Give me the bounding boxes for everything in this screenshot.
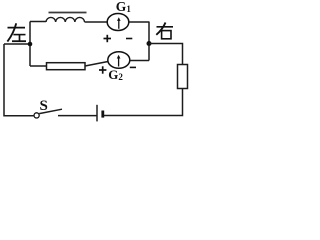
- wire right vertical (between branches): [148, 22, 150, 61]
- label G1 minus: [126, 38, 132, 40]
- wire R2 to bottom right corner: [104, 89, 183, 116]
- node right junction: [147, 41, 152, 46]
- battery long plate (positive): [96, 105, 98, 122]
- wire battery to switch: [58, 115, 97, 117]
- galvanometer G1 needle arrow: [117, 17, 121, 29]
- galvanometer G1 circle: [107, 14, 129, 31]
- wire switch to bottom left corner: [4, 44, 34, 116]
- wire coil to G1: [85, 21, 108, 23]
- resistor R2 (right, vertical): [178, 65, 188, 89]
- wire left riser to R1: [30, 65, 47, 67]
- label G2 plus: [99, 66, 106, 73]
- wire left junction to outer left: [4, 43, 30, 45]
- wire right junction to R2 corner: [149, 44, 183, 65]
- switch S blade: [39, 109, 62, 113]
- label left (zuo): [7, 23, 26, 41]
- label G2 minus: [130, 66, 136, 68]
- wire top branch left segment: [30, 21, 46, 23]
- svg-text:G1: G1: [116, 0, 132, 14]
- switch S pivot circle: [34, 113, 39, 118]
- wire G1 to right corner: [129, 21, 149, 23]
- battery short plate (negative): [101, 111, 104, 118]
- node left junction: [28, 42, 33, 47]
- wire R1 to G2: [85, 62, 108, 67]
- svg-text:S: S: [40, 98, 48, 114]
- label right (you): [156, 23, 173, 39]
- resistor R1 (horizontal): [47, 63, 86, 70]
- inductor L coil (4 humps): [46, 17, 85, 22]
- svg-text:G2: G2: [108, 67, 123, 82]
- galvanometer G2 needle arrow: [117, 55, 121, 67]
- wire top-left vertical (inner left branch riser): [29, 22, 31, 67]
- label G1 plus: [104, 35, 112, 42]
- wire G2 to right vertical: [130, 60, 149, 62]
- inductor core bar: [49, 12, 87, 14]
- galvanometer G2 circle: [108, 52, 130, 69]
